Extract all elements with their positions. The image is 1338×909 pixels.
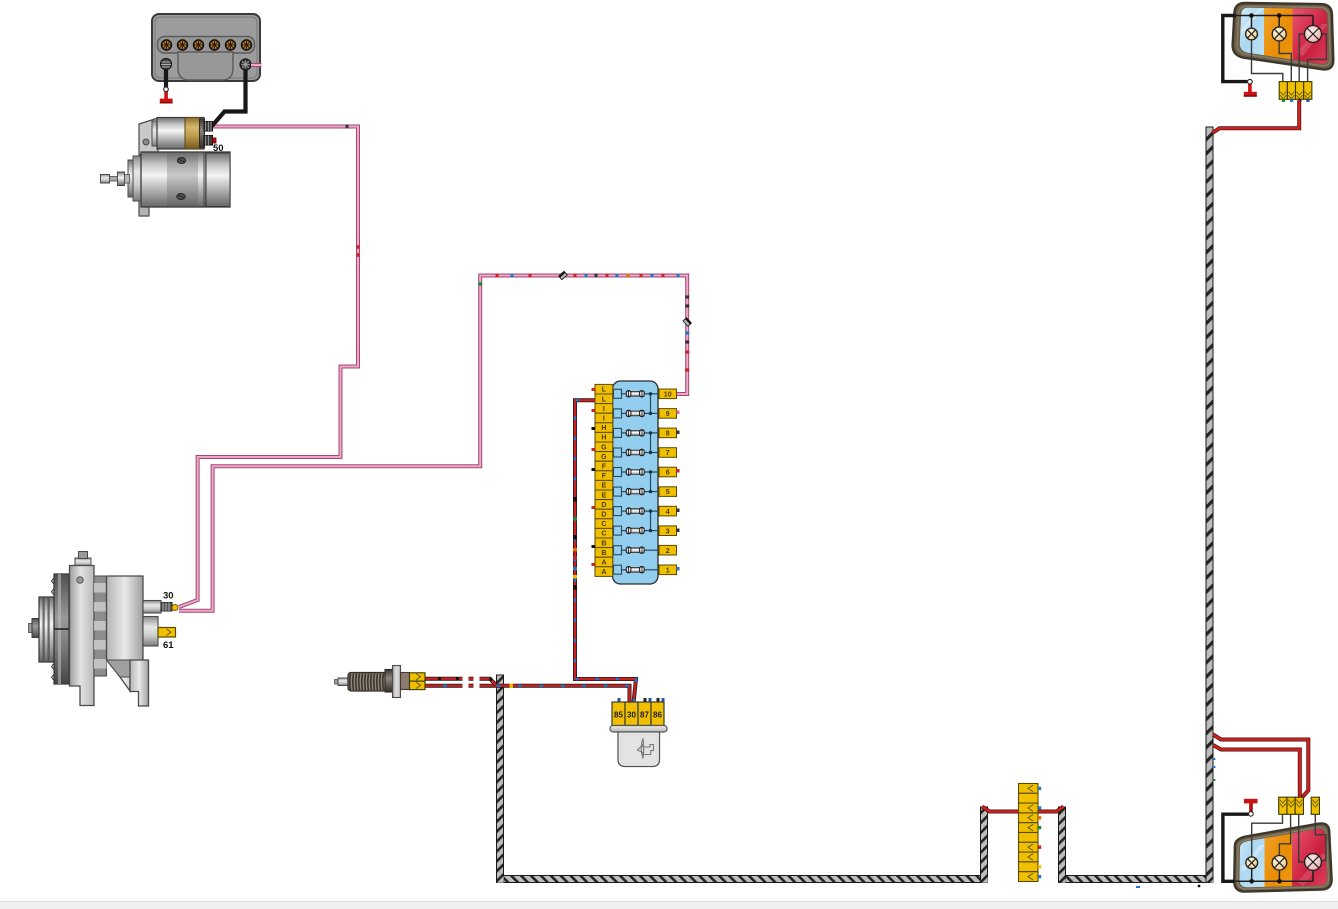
svg-text:50: 50: [213, 143, 224, 154]
temperature sensor B: [335, 666, 410, 698]
fuse box tab 2: [659, 545, 677, 555]
wire red through connector X1 (bottom bridge): [982, 807, 1064, 812]
svg-text:H: H: [601, 425, 606, 432]
fuse box tab 4: [659, 506, 677, 516]
svg-text:G: G: [601, 444, 607, 451]
svg-text:A: A: [601, 560, 606, 567]
fuse 4: [614, 507, 660, 516]
top lamp orange section: [1264, 4, 1293, 70]
bottom lamp red section: [1292, 824, 1332, 890]
wire battery negative to ground: [164, 70, 168, 88]
svg-text:L: L: [602, 387, 607, 394]
top lamp bulb (blue section): [1246, 28, 1258, 40]
fuse box tab 5: [659, 487, 677, 497]
svg-text:30: 30: [163, 591, 174, 602]
bottom lamp orange section: [1265, 824, 1293, 890]
wire striped red/black: sensor upper wire (segment a): [424, 677, 463, 681]
svg-text:D: D: [601, 512, 606, 519]
wire colour marks on pink wires: [346, 125, 349, 129]
wire striped red/black: sensor upper wire (segment c): [480, 679, 497, 686]
fuse box SF: [613, 381, 659, 584]
fuse 1: [614, 565, 660, 574]
wire black: bottom lamp to ground: [1223, 814, 1249, 881]
bottom lamp junction dots: [1249, 879, 1254, 884]
ground symbol (top lamp): [1244, 79, 1257, 96]
svg-text:H: H: [601, 435, 606, 442]
svg-text:C: C: [601, 521, 606, 528]
svg-text:5: 5: [666, 489, 670, 496]
fuse box tab 1: [659, 565, 677, 575]
bottom lamp internal ground bus: [1223, 869, 1313, 882]
wire striped red/blue: fuse box cell L to relay terminal 30: [575, 400, 636, 703]
fuse box tab 7: [659, 448, 677, 458]
fuse link 8-7: [650, 433, 652, 453]
fuse link 10-9: [650, 394, 652, 414]
svg-text:C: C: [601, 531, 606, 538]
wire pink: starter terminal 50 to alternator terminal 30: [179, 127, 358, 608]
top lamp junction dots: [1249, 13, 1254, 18]
relay icon (fan arrow): [638, 739, 654, 759]
fuse 6: [614, 468, 660, 477]
fuse box tab 6: [659, 467, 677, 477]
wire pink stub from battery positive terminal: [251, 63, 262, 67]
top lamp red section: [1293, 4, 1333, 70]
top lamp return wires: [1252, 34, 1327, 82]
battery GB1: [152, 14, 260, 81]
svg-text:E: E: [602, 492, 607, 499]
bottom lamp connector (3 cells): [1279, 797, 1304, 814]
ground symbol (bottom lamp): [1244, 799, 1258, 816]
relay terminal 85: [612, 702, 625, 726]
cable splice marker on pink wire (right vertical): [683, 318, 691, 327]
bottom lamp bulb (orange section): [1272, 856, 1287, 871]
top lamp connector (4 cells): [1279, 82, 1312, 100]
tab side marks: [677, 469, 680, 473]
alternator terminal 30 (stud + yellow tip): [161, 603, 178, 612]
battery positive terminal: [240, 59, 251, 70]
fuse box tab 10: [659, 389, 677, 399]
svg-text:F: F: [602, 464, 607, 471]
relay K9 body: [610, 726, 667, 767]
fuse 5: [614, 487, 660, 496]
top lamp bulb (orange section): [1272, 27, 1286, 41]
bottom lamp bulb (blue section): [1246, 857, 1258, 869]
bottom page strip: [0, 902, 1338, 909]
connector X1 wire marks: [1038, 787, 1041, 879]
svg-text:A: A: [601, 569, 606, 576]
relay K9 terminal ticks: [618, 698, 665, 702]
wire red: harness to bottom lamp connector (inner): [1213, 745, 1300, 798]
alternator G1: [29, 552, 162, 707]
svg-text:B: B: [601, 540, 606, 547]
fuse box left connector cells: [595, 384, 613, 576]
fuse 3: [614, 526, 660, 535]
svg-text:30: 30: [627, 711, 636, 720]
svg-text:3: 3: [666, 528, 670, 535]
relay terminal 87: [638, 702, 651, 726]
harness tick marks: [1213, 758, 1215, 760]
wire pink: alternator terminal 30 to fuse box tab 10: [179, 276, 687, 611]
wire striped red/blue: sensor to relay (segment a): [424, 684, 463, 688]
svg-text:L: L: [602, 396, 607, 403]
svg-text:7: 7: [666, 450, 670, 457]
top lamp bulb (red section): [1305, 26, 1322, 43]
tail lamp (bottom right) housing: [1234, 823, 1331, 891]
top lamp internal wiring: [1223, 16, 1313, 29]
svg-text:9: 9: [666, 411, 670, 418]
fuse box tab 3: [659, 526, 677, 536]
starter motor M1: [101, 118, 231, 217]
svg-text:10: 10: [664, 392, 672, 399]
black band marks on fuse box wire: [573, 497, 577, 590]
fuse 2: [614, 546, 660, 555]
wire black: top lamp to ground: [1223, 16, 1248, 82]
bottom lamp single connector: [1311, 797, 1319, 814]
svg-text:86: 86: [653, 711, 662, 720]
harness bottom-left run: [504, 876, 981, 883]
top lamp blue section: [1235, 4, 1264, 70]
svg-text:2: 2: [666, 548, 670, 555]
wire striped red/blue: sensor to relay (segment b): [469, 684, 474, 688]
tail lamp (top right) housing: [1233, 3, 1334, 69]
harness corner patches: [497, 876, 503, 882]
svg-text:85: 85: [614, 711, 623, 720]
fuse box tab 8: [659, 428, 677, 438]
harness vertical middle segment: [497, 675, 504, 883]
fuse 7: [614, 448, 660, 457]
relay terminal 30: [625, 702, 638, 726]
starter solenoid lower stud: [204, 136, 216, 146]
svg-text:B: B: [601, 550, 606, 557]
relay terminal 86: [651, 702, 664, 726]
starter solenoid terminal 50 (upper stud): [204, 122, 213, 132]
connector X1 (bottom strip): [1019, 784, 1039, 882]
harness right stub up (after connector X1): [1059, 807, 1066, 883]
svg-text:1: 1: [666, 568, 670, 575]
battery negative terminal: [161, 59, 172, 70]
fuse 9: [614, 409, 660, 418]
bottom lamp feed wires: [1252, 815, 1326, 863]
wire striped red/blue: sensor to relay (segment c): [480, 686, 630, 703]
wire red: harness to bottom lamp connector (outer): [1213, 735, 1308, 798]
fuse link 4-3: [650, 511, 652, 530]
harness bottom-right run: [1066, 876, 1207, 883]
wire red: top lamp connector to harness: [1213, 101, 1300, 133]
harness right vertical run: [1206, 127, 1213, 883]
yellow band mark on sensor wire: [510, 684, 513, 689]
fuse link 6-5: [650, 472, 652, 492]
svg-text:F: F: [602, 473, 607, 480]
svg-text:D: D: [601, 502, 606, 509]
svg-text:87: 87: [640, 711, 649, 720]
sensor connector (two yellow terminals): [410, 673, 426, 690]
ground symbol (battery): [160, 87, 173, 104]
harness left stub up (before connector X1): [981, 807, 988, 883]
battery cell caps: [161, 40, 252, 51]
fuse 8: [614, 428, 660, 437]
alternator connector 61: [158, 628, 176, 638]
bottom lamp bulb (red section): [1305, 854, 1322, 871]
fuse 10: [614, 389, 660, 398]
fuse box tab 9: [659, 409, 677, 419]
svg-text:E: E: [602, 483, 607, 490]
svg-text:G: G: [601, 454, 607, 461]
top lamp connector wire marks: [1282, 99, 1310, 102]
wire striped red/black: sensor upper wire (segment b): [469, 677, 474, 681]
cable splice marker on pink wire (top): [559, 271, 568, 279]
svg-text:4: 4: [666, 509, 670, 516]
small wire marks left of cells: [592, 388, 596, 566]
svg-text:I: I: [603, 406, 605, 413]
svg-text:I: I: [603, 416, 605, 423]
bottom lamp blue section: [1235, 824, 1265, 890]
svg-text:6: 6: [666, 470, 670, 477]
svg-text:61: 61: [163, 640, 174, 651]
wire battery positive to starter solenoid terminal: [212, 70, 246, 126]
svg-text:8: 8: [666, 431, 670, 438]
